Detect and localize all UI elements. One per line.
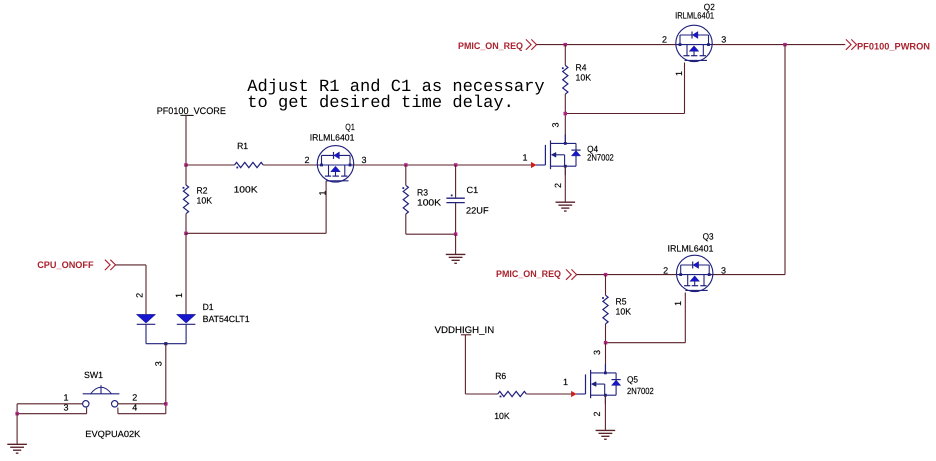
wire CPU_ONOFF to D1 pin 2 xyxy=(115,264,146,266)
svg-text:1: 1 xyxy=(522,153,527,163)
svg-text:2: 2 xyxy=(662,35,667,45)
svg-text:2: 2 xyxy=(304,155,309,165)
wire Q2 pin 1 down and left to R4 bottom xyxy=(684,63,686,114)
node junction switch pin 2 xyxy=(164,402,168,406)
svg-text:2N7002: 2N7002 xyxy=(627,386,654,396)
svg-text:100K: 100K xyxy=(234,184,258,194)
svg-text:10K: 10K xyxy=(616,306,632,316)
wire VDDHIGH_IN down xyxy=(464,335,466,394)
svg-text:10K: 10K xyxy=(494,411,510,421)
svg-text:PMIC_ON_REQ: PMIC_ON_REQ xyxy=(496,269,561,280)
svg-text:2N7002: 2N7002 xyxy=(587,153,614,163)
svg-text:R3: R3 xyxy=(417,188,428,198)
wire Q3 pin 3 to PWRON branch xyxy=(713,274,785,276)
node junction at C1 top xyxy=(454,163,458,167)
wire D1 common cathode bar xyxy=(146,343,186,345)
svg-text:2: 2 xyxy=(663,265,668,275)
svg-text:IRLML6401: IRLML6401 xyxy=(310,133,355,143)
node junction at R4 top xyxy=(564,43,568,47)
node junction at PF0100_PWRON branch xyxy=(783,43,787,47)
svg-text:1: 1 xyxy=(563,377,568,387)
svg-text:CPU_ONOFF: CPU_ONOFF xyxy=(37,260,94,271)
wire PF0100_VCORE down to R1/R2 node xyxy=(185,115,187,165)
wire C1 bottom stub xyxy=(455,203,457,235)
svg-text:2: 2 xyxy=(553,183,563,188)
wire switch to ground xyxy=(16,414,18,444)
node junction R4 bottom / Q2 gate / Q4 drain xyxy=(564,112,568,116)
resistor R1 xyxy=(235,162,264,167)
switch SW1 contact pin 1 xyxy=(83,401,89,407)
svg-text:1: 1 xyxy=(674,71,684,76)
net tick VDDHIGH_IN xyxy=(461,334,471,336)
ground below switch xyxy=(7,443,27,445)
svg-text:C1: C1 xyxy=(467,185,479,195)
wire C1 top stub xyxy=(455,165,457,198)
node junction C1 bottom xyxy=(454,232,458,236)
net tick PF0100_VCORE xyxy=(180,114,193,116)
wire C1 bottom to ground xyxy=(455,234,457,254)
node junction at R3 top xyxy=(404,163,408,167)
wire switch pin 2 xyxy=(118,403,166,405)
svg-text:to get desired time delay.: to get desired time delay. xyxy=(247,94,514,113)
wire node to R1 xyxy=(186,164,235,166)
wire R4 top stub xyxy=(564,45,566,66)
transistor Q1 IRLML6401 xyxy=(317,146,353,182)
wire R3 bottom stub xyxy=(405,214,407,234)
switch SW1 contact pin 2 xyxy=(112,401,118,407)
svg-text:IRLML6401: IRLML6401 xyxy=(675,11,714,21)
resistor R2 xyxy=(183,185,188,214)
wire R5 bottom stub xyxy=(605,324,607,343)
svg-text:R5: R5 xyxy=(616,297,627,307)
wire switch pin 3 xyxy=(17,413,87,415)
wire PF0100_PWRON branch down to Q3 pin 3 xyxy=(784,45,786,275)
resistor R3 xyxy=(403,185,408,214)
wire Q1 pin 3 to Q4 gate xyxy=(354,164,532,166)
wire Q1 pin 1 down and left to R2 bottom node xyxy=(325,181,327,234)
svg-text:Q3: Q3 xyxy=(703,232,714,242)
transistor Q3 IRLML6401 xyxy=(677,255,713,291)
transistor Q2 IRLML6401 xyxy=(676,25,712,61)
wire R3 bottom to C1 bottom xyxy=(406,233,456,235)
svg-text:2: 2 xyxy=(132,393,137,403)
svg-text:EVQPUA02K: EVQPUA02K xyxy=(85,429,140,439)
svg-text:IRLML6401: IRLML6401 xyxy=(668,244,714,254)
svg-text:D1: D1 xyxy=(203,302,214,312)
svg-text:10K: 10K xyxy=(197,195,213,205)
svg-text:R2: R2 xyxy=(197,186,208,196)
svg-text:1: 1 xyxy=(673,301,683,306)
wire Q4 source to ground xyxy=(564,166,566,202)
wire R3 top stub xyxy=(405,165,407,185)
svg-text:22UF: 22UF xyxy=(466,205,489,215)
off-page connector chevrons PF0100_PWRON xyxy=(846,39,851,49)
node junction at R5 top xyxy=(604,273,608,277)
wire R4 bottom to Q4 drain xyxy=(564,94,566,143)
wire switch pin 1 xyxy=(17,403,83,405)
svg-text:3: 3 xyxy=(592,350,602,355)
svg-text:2: 2 xyxy=(592,411,602,416)
wire R2 top stub xyxy=(185,165,187,185)
node junction R2 bottom / Q1 gate / D1 branch xyxy=(184,232,188,236)
off-page connector chevrons PMIC_ON_REQ (top) xyxy=(526,39,531,49)
node D1 pin 3 junction xyxy=(164,342,167,345)
wire VCORE rail down to D1 pin 1 xyxy=(185,233,187,314)
wire Q2 pin 3 to PF0100_PWRON xyxy=(712,44,845,46)
node junction R5 bottom / Q3 gate / Q5 drain xyxy=(604,341,608,345)
svg-text:R1: R1 xyxy=(237,141,248,151)
wire PMIC_ON_REQ to Q2 pin 2 xyxy=(537,44,677,46)
switch SW1 actuator xyxy=(83,393,120,395)
wire VDDHIGH_IN to R6 xyxy=(465,393,497,395)
wire R1 to Q1 pin 2 xyxy=(263,164,317,166)
svg-text:3: 3 xyxy=(362,155,367,165)
resistor R6 xyxy=(498,391,527,396)
off-page connector chevrons PMIC_ON_REQ (bottom) xyxy=(566,269,571,279)
svg-text:3: 3 xyxy=(721,35,726,45)
ground below Q4 xyxy=(556,201,576,203)
svg-text:10K: 10K xyxy=(576,73,592,83)
ground below C1 xyxy=(446,253,466,255)
svg-text:R6: R6 xyxy=(495,371,506,381)
svg-text:2: 2 xyxy=(135,293,145,298)
node junction R1/R2/PF0100_VCORE xyxy=(184,163,188,167)
svg-text:SW1: SW1 xyxy=(84,370,103,380)
svg-text:3: 3 xyxy=(154,361,164,366)
svg-text:100K: 100K xyxy=(417,197,441,207)
wire R2 bottom stub xyxy=(185,214,187,234)
svg-text:Q5: Q5 xyxy=(627,375,638,385)
svg-text:Q1: Q1 xyxy=(345,122,355,132)
wire Q5 source to ground xyxy=(604,395,606,430)
transistor Q4 2N7002 xyxy=(550,140,552,169)
svg-text:1: 1 xyxy=(63,393,68,403)
svg-text:3: 3 xyxy=(551,122,561,127)
diode D1 right half xyxy=(177,314,196,323)
resistor R4 xyxy=(563,65,568,94)
svg-text:PF0100_PWRON: PF0100_PWRON xyxy=(857,41,930,52)
svg-text:PMIC_ON_REQ: PMIC_ON_REQ xyxy=(458,41,523,52)
capacitor C1 xyxy=(446,197,464,199)
diode D1 left half xyxy=(136,314,155,323)
wire PMIC_ON_REQ to Q3 pin 2 xyxy=(577,274,677,276)
wire R5 node down to Q5 drain xyxy=(605,343,607,373)
wire R5 top stub xyxy=(605,275,607,296)
svg-text:BAT54CLT1: BAT54CLT1 xyxy=(203,314,250,324)
ground below Q5 xyxy=(596,429,616,431)
node junction switch ground xyxy=(15,412,19,416)
wire R6 to Q5 gate xyxy=(526,393,571,395)
resistor R5 xyxy=(603,295,608,324)
wire Q3 pin 1 down and left to R5 bottom xyxy=(684,293,686,343)
wire D1 pin 3 down to switch xyxy=(165,344,167,414)
svg-text:1: 1 xyxy=(174,293,184,298)
wire switch pin 4 xyxy=(118,413,166,415)
svg-text:R4: R4 xyxy=(576,63,587,73)
wire switch left vertical xyxy=(16,404,18,414)
transistor Q5 2N7002 xyxy=(590,370,592,398)
svg-text:3: 3 xyxy=(721,265,726,275)
off-page connector chevrons CPU_ONOFF xyxy=(105,260,110,270)
